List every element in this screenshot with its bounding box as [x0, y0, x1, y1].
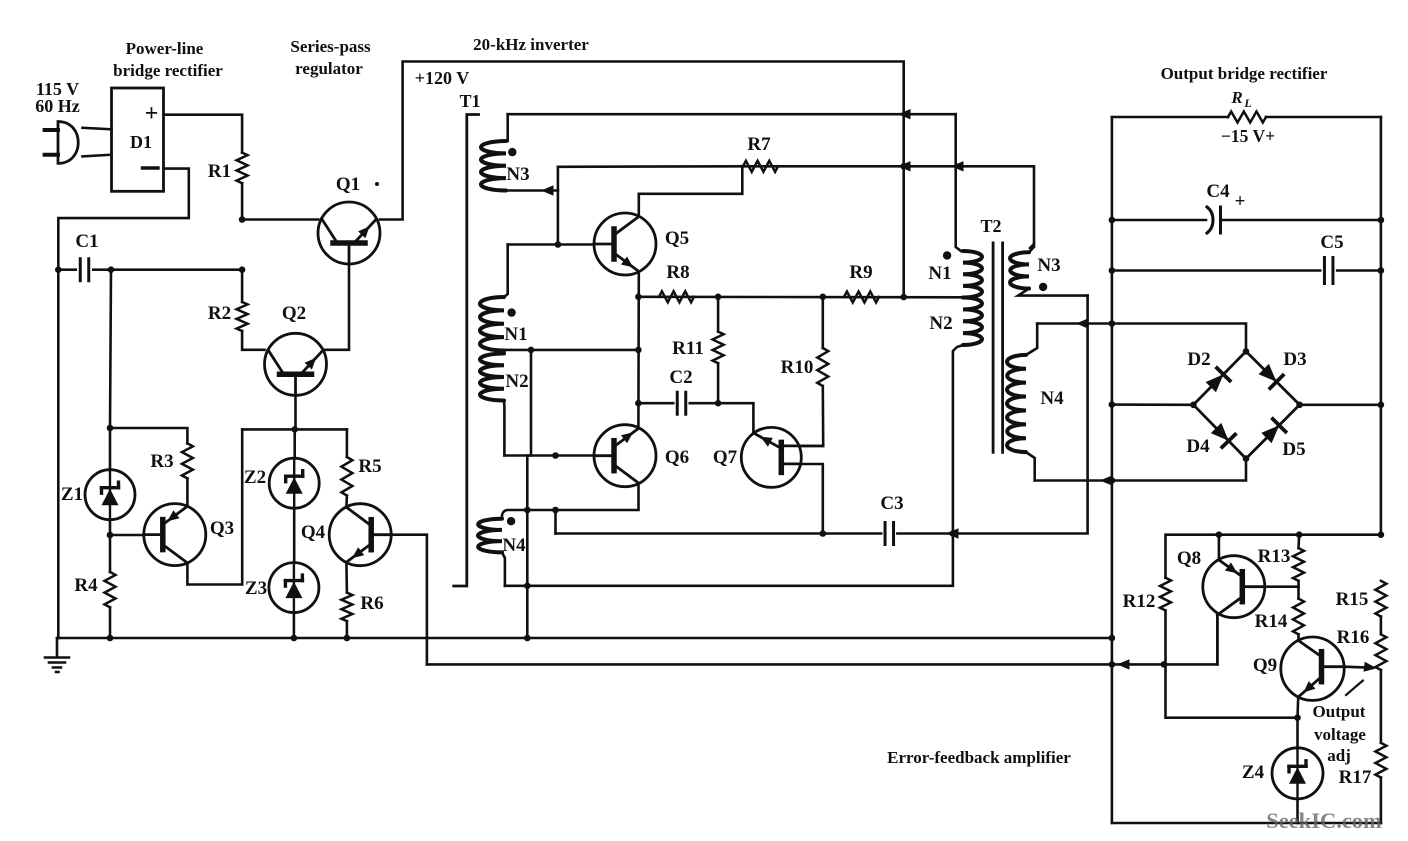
resistor R12 — [1160, 578, 1171, 611]
wire C1 right lead to node — [93, 268, 111, 271]
node Q2/Z2 — [291, 426, 298, 433]
svg-text:Z2: Z2 — [244, 467, 266, 488]
svg-text:C3: C3 — [880, 493, 903, 514]
svg-text:N4: N4 — [1040, 388, 1064, 409]
winding N1 of T1 — [480, 297, 504, 351]
AC plug body — [58, 122, 78, 164]
svg-text:voltage: voltage — [1314, 725, 1366, 744]
diode bridge frame — [1193, 351, 1299, 458]
wire N4 T1 top lead — [502, 510, 527, 519]
winding N1 of T2 — [963, 251, 982, 298]
node C4 right — [1378, 217, 1385, 224]
wire R5 top lead — [346, 429, 349, 457]
capacitor C2 — [677, 392, 686, 414]
wire Q7 base to R10 — [800, 445, 824, 448]
node bus/bridge bottom — [1109, 477, 1116, 484]
wire Q3 emitter to Z2 node — [187, 429, 242, 584]
svg-text:T2: T2 — [980, 216, 1001, 236]
svg-text:R13: R13 — [1258, 546, 1291, 567]
diode D3 — [1259, 364, 1283, 388]
wire Q2 emitter down — [294, 395, 297, 429]
wire N3 T2 top lead — [1029, 244, 1034, 252]
resistor R8 — [659, 291, 694, 302]
svg-text:Error-feedback amplifier: Error-feedback amplifier — [887, 748, 1071, 767]
svg-text:R10: R10 — [781, 357, 814, 378]
wire Z3 to ground bus — [293, 613, 296, 638]
svg-text:R9: R9 — [849, 262, 872, 283]
resistor R16 potentiometer — [1375, 634, 1386, 670]
wire R15 bottom to R16 — [1380, 617, 1383, 635]
svg-text:R3: R3 — [150, 451, 173, 472]
wire Q8 collector lead — [1218, 535, 1221, 560]
arrow on R7 line at bus — [898, 161, 911, 171]
capacitor C1 — [80, 259, 89, 281]
wire N3 bottom lead — [506, 189, 558, 192]
node N4 rail/ground — [524, 635, 531, 642]
wire Q3 base — [110, 534, 144, 537]
transistor Q7 — [741, 427, 801, 487]
winding N3 of T1 — [481, 141, 506, 191]
svg-text:R6: R6 — [360, 593, 383, 614]
wire N1 T1 top lead — [508, 243, 558, 246]
stray mark near Q1 — [375, 182, 379, 186]
wire N4 T2 top line to bridge — [1037, 324, 1246, 352]
transistor Q8 — [1203, 556, 1265, 618]
wire C5 row — [1112, 269, 1320, 272]
wire R7 line — [558, 166, 1034, 248]
svg-text:R5: R5 — [358, 456, 381, 477]
svg-text:D3: D3 — [1283, 349, 1306, 370]
wire bridge AC bottom line — [1035, 459, 1246, 481]
node C1 left — [55, 266, 62, 273]
wire Q6 bottom lead — [527, 483, 638, 510]
svg-text:D5: D5 — [1282, 439, 1305, 460]
svg-text:Q3: Q3 — [210, 518, 234, 539]
node C1 right — [108, 266, 115, 273]
wire T2 N1 top vertical — [956, 114, 961, 251]
svg-text:Q1: Q1 — [336, 174, 360, 195]
node R11/C2 — [715, 400, 722, 407]
wire Q9 collector to pot wiper — [1344, 665, 1367, 668]
wire R10 top lead — [821, 297, 824, 348]
winding N4 of T1 — [478, 519, 502, 553]
svg-text:Z1: Z1 — [61, 484, 83, 505]
transistor Q4 — [329, 504, 391, 566]
node R10 top — [820, 294, 827, 301]
resistor R10 — [817, 348, 828, 386]
node bridge top — [1243, 348, 1250, 355]
wire bridge DC left — [1112, 403, 1194, 406]
svg-text:Series-pass: Series-pass — [290, 37, 371, 56]
node R9 right/main bus — [900, 294, 907, 301]
wire error amp top line — [1164, 611, 1167, 665]
svg-text:Q9: Q9 — [1253, 655, 1277, 676]
zener Z3 — [269, 563, 319, 613]
wire R11 leads — [717, 297, 720, 332]
phasing dot N1 T2 — [943, 251, 951, 259]
svg-text:+: + — [145, 101, 159, 127]
wire R2 to Q2 base — [242, 331, 264, 350]
svg-text:+120 V: +120 V — [415, 68, 469, 88]
node C3 line/T2 drop — [950, 530, 957, 537]
wire R12 top to 536 line — [1166, 535, 1381, 578]
zener Z2 — [269, 458, 319, 508]
svg-text:T1: T1 — [459, 91, 480, 111]
plug to rectifier funnel bottom — [83, 155, 112, 157]
node C2 left — [635, 400, 642, 407]
svg-text:Output: Output — [1313, 702, 1366, 721]
capacitor C3 — [885, 523, 894, 545]
svg-text:R15: R15 — [1336, 589, 1369, 610]
svg-text:−15 V+: −15 V+ — [1221, 126, 1275, 146]
winding N4 of T2 — [1007, 355, 1026, 452]
wire N3/R7 vertical to Q5 base — [557, 167, 560, 245]
zener Z4 — [1272, 748, 1323, 799]
svg-text:+: + — [1235, 191, 1246, 212]
wire C5 row right — [1337, 269, 1381, 272]
resistor R2 — [237, 302, 248, 331]
node N4 rail/585 line — [524, 583, 531, 590]
svg-text:N1: N1 — [504, 324, 527, 345]
node R13 top — [1296, 531, 1303, 538]
wire C4 row — [1112, 219, 1206, 222]
svg-text:N1: N1 — [928, 263, 951, 284]
transformer T1 core — [454, 115, 479, 587]
wire N4 T2 top lead — [1026, 324, 1037, 355]
diode D5 — [1261, 419, 1285, 443]
wire node to Q1 base — [242, 218, 318, 221]
wire C3 line — [556, 532, 882, 535]
svg-text:C1: C1 — [75, 231, 98, 252]
output right bus — [1380, 117, 1383, 535]
wire C4 row right — [1221, 219, 1381, 222]
node bus/N4T2 line — [1109, 320, 1116, 327]
wire Z2 top lead — [293, 429, 296, 458]
svg-text:Q6: Q6 — [665, 447, 689, 468]
wire node to R3 — [110, 428, 187, 443]
wire C3 drop — [554, 510, 557, 534]
node R3 branch — [107, 425, 114, 432]
AC plug prongs — [45, 130, 58, 155]
phasing dot N1 T1 — [507, 308, 515, 316]
wire feedback branch to Q9 emitter — [1166, 664, 1298, 717]
wire Z1 rail down — [110, 270, 111, 470]
resistor R9 — [844, 292, 879, 303]
wire R3 to Q3 collector — [186, 478, 189, 506]
svg-text:R8: R8 — [666, 262, 689, 283]
wire D1 + output to R1 — [164, 115, 243, 153]
wire C1 left lead — [58, 268, 75, 271]
resistor R11 — [713, 332, 724, 364]
svg-text:N4: N4 — [502, 535, 526, 556]
wire R6 to ground bus — [346, 621, 349, 638]
wire R10 to Q7 base — [800, 386, 824, 446]
node R1/Q1 base — [239, 216, 246, 223]
wire N4 bottom lead — [502, 552, 505, 585]
svg-text:R11: R11 — [672, 338, 704, 359]
svg-text:bridge rectifier: bridge rectifier — [113, 61, 223, 80]
wire R5 to Q4 collector — [345, 496, 348, 508]
ground symbol — [45, 638, 69, 672]
svg-text:N2: N2 — [929, 313, 952, 334]
wire R4 to ground bus — [109, 607, 112, 638]
wire R13 bottom lead — [1297, 581, 1300, 599]
node R15 top — [1378, 531, 1385, 538]
slash annotation — [1346, 681, 1363, 695]
svg-text:Q5: Q5 — [665, 228, 689, 249]
node bridge left — [1190, 402, 1197, 409]
node R8 left — [635, 294, 642, 301]
phasing dot N4 T1 — [507, 517, 515, 525]
node bridge left bus — [1109, 401, 1116, 408]
wire Q1 collector to +120V rail — [380, 62, 904, 297]
resistor R13 — [1293, 548, 1304, 581]
svg-text:D1: D1 — [130, 132, 152, 152]
svg-text:R1: R1 — [208, 161, 231, 182]
wire R8/R9 line — [638, 295, 961, 298]
node bridge bottom — [1243, 455, 1250, 462]
node ground bus/output bus — [1109, 635, 1116, 642]
node C5 left — [1109, 267, 1116, 274]
svg-text:R: R — [1230, 88, 1242, 107]
svg-text:R4: R4 — [74, 575, 98, 596]
wire Z2 to Z3 — [293, 508, 296, 562]
svg-text:regulator: regulator — [295, 59, 363, 78]
svg-text:R17: R17 — [1339, 767, 1372, 788]
wire bridge DC right — [1300, 403, 1381, 406]
arrow on C3 line — [946, 528, 959, 538]
wire N3T1-top line to T2 — [508, 113, 956, 116]
wire Z1 to Q3 base node — [109, 520, 112, 572]
node Q8 collector — [1216, 531, 1223, 538]
transistor Q1 — [318, 202, 380, 264]
wire Q6 base line — [504, 454, 593, 457]
node C4 left — [1109, 217, 1116, 224]
wire N4 T2 bottom lead — [1026, 452, 1035, 480]
resistor R4 — [105, 572, 116, 607]
svg-text:Q8: Q8 — [1177, 548, 1201, 569]
arrow on N4T2 top line — [1076, 318, 1089, 328]
svg-text:N2: N2 — [505, 371, 528, 392]
resistor R6 — [341, 593, 352, 622]
transistor Q9 — [1281, 637, 1344, 700]
svg-text:Q7: Q7 — [713, 447, 738, 468]
node Q6 base line — [552, 452, 559, 459]
resistor R15 — [1375, 581, 1386, 617]
node N4 top — [524, 507, 531, 514]
svg-text:Q4: Q4 — [301, 522, 326, 543]
wire Q5 emitter down to Q6 — [637, 272, 640, 428]
pot wiper arrow into R16 — [1364, 662, 1378, 672]
resistor R7 — [743, 161, 778, 172]
node R6/ground — [344, 635, 351, 642]
transistor Q6 — [594, 425, 656, 487]
capacitor C4 polarized — [1207, 207, 1221, 233]
wire Q5 base — [558, 243, 594, 246]
bridge rectifier D1 box — [112, 88, 164, 191]
node R4/ground — [107, 635, 114, 642]
svg-text:SeekIC.com: SeekIC.com — [1266, 808, 1382, 833]
wire Q4 base to feedback line — [391, 535, 427, 665]
wire N1/N2 tap line — [502, 349, 638, 352]
node Z3/ground — [291, 635, 298, 642]
svg-text:C2: C2 — [669, 367, 692, 388]
wire Q1 emitter down to Q2 — [323, 264, 349, 350]
node R7/main bus — [900, 163, 907, 170]
wire R13 top lead — [1297, 535, 1300, 548]
wire R17 to bottom rail — [1380, 778, 1383, 824]
wire R2 top lead — [241, 270, 244, 302]
svg-text:R14: R14 — [1255, 611, 1288, 632]
svg-text:Output bridge rectifier: Output bridge rectifier — [1161, 64, 1328, 83]
node R1/R2 junction — [239, 266, 246, 273]
output top rail left — [1112, 116, 1228, 119]
wire feedback line — [427, 615, 1218, 665]
node Q7/C3 line — [820, 530, 827, 537]
wire Z2 branch line — [242, 428, 347, 431]
svg-text:D2: D2 — [1187, 349, 1210, 370]
capacitor C5 — [1324, 258, 1333, 284]
bottom rail — [1112, 822, 1381, 825]
wire Q5 collector to R7 — [639, 166, 743, 217]
output top rail right — [1266, 116, 1381, 119]
phasing dot N3 T1 — [508, 148, 516, 156]
wire C2 row right — [690, 403, 754, 433]
wire D1 - output — [58, 169, 189, 270]
node tap/N1N2 — [528, 347, 535, 354]
wire N1 T1 top vertical — [504, 245, 508, 298]
svg-text:60 Hz: 60 Hz — [35, 96, 80, 116]
svg-text:Z4: Z4 — [1242, 762, 1265, 783]
wire Z4 bottom to rail — [1296, 799, 1299, 823]
wire N4 rail to ground — [526, 510, 529, 638]
svg-text:C4: C4 — [1206, 181, 1230, 202]
svg-text:C5: C5 — [1320, 232, 1343, 253]
wire C1 node to R2 node — [111, 268, 242, 271]
wire C1 left rail down to ground — [57, 270, 60, 638]
diode D2 — [1206, 368, 1230, 392]
svg-text:Q2: Q2 — [282, 303, 306, 324]
wire N3 T2 bottom lead — [1018, 289, 1088, 296]
wire R11 bottom lead — [717, 363, 720, 403]
node R12 bottom/feedback — [1161, 661, 1168, 668]
minus terminal of D1 — [143, 166, 159, 169]
winding N2 of T1 — [480, 354, 504, 401]
wire Z4 top lead — [1296, 718, 1299, 749]
plug to rectifier funnel top — [83, 128, 112, 130]
wire Q8 base to R13/R14 — [1265, 585, 1299, 588]
node bridge right — [1296, 402, 1303, 409]
node R11 top — [715, 294, 722, 301]
wire Q7 collector down to C3 line — [801, 464, 823, 534]
svg-text:20-kHz inverter: 20-kHz inverter — [473, 35, 589, 54]
svg-text:N3: N3 — [506, 164, 529, 185]
wire Q9 emitter down — [1296, 697, 1299, 718]
wire tap vertical — [527, 350, 531, 510]
phasing dot N3 T2 — [1039, 283, 1047, 291]
wire R14 to Q9 base — [1297, 634, 1300, 640]
svg-text:Power-line: Power-line — [126, 39, 204, 58]
wire 585 line (N4 T1 to T2) — [505, 345, 963, 586]
node tap right — [635, 347, 642, 354]
diode D4 — [1211, 423, 1235, 447]
svg-text:R16: R16 — [1337, 627, 1370, 648]
output left bus — [1111, 117, 1114, 823]
resistor R14 — [1293, 599, 1304, 635]
resistor R1 — [237, 153, 248, 184]
transformer T2 core — [993, 243, 1003, 452]
zener Z1 — [85, 470, 135, 520]
transistor Q5 — [594, 213, 656, 275]
node Z1/Q3 base — [107, 532, 114, 539]
wire Q8 emitter down to feedback — [1216, 615, 1219, 665]
arrow on R7 line at T2 branch — [951, 161, 964, 171]
resistor R5 — [341, 457, 352, 496]
resistor R3 — [182, 443, 193, 478]
svg-text:R2: R2 — [208, 303, 231, 324]
arrow on bridge bottom line — [1100, 475, 1113, 485]
node feedback/output bus — [1109, 661, 1116, 668]
node bridge right bus — [1378, 402, 1385, 409]
wire N2 bottom lead — [503, 401, 506, 456]
resistor R17 — [1375, 743, 1386, 778]
svg-text:L: L — [1243, 96, 1251, 110]
arrow on 114 line — [898, 109, 911, 119]
node Q9 emitter tap — [1294, 714, 1301, 721]
node C3 drop — [552, 507, 559, 514]
svg-text:D4: D4 — [1186, 436, 1210, 457]
wire Q4 emitter to R6 — [345, 562, 348, 592]
wire R1 bottom to node — [241, 183, 244, 219]
resistor RL — [1228, 112, 1266, 123]
arrow feedback at bus — [1117, 659, 1130, 669]
svg-text:R7: R7 — [747, 134, 771, 155]
ground bus — [57, 637, 1112, 640]
arrow on N3 bottom wire — [541, 185, 554, 195]
wire C2 row left — [638, 402, 673, 405]
svg-text:adj: adj — [1327, 746, 1351, 765]
wire R16 to R17 — [1380, 670, 1383, 743]
wire T1 N3 top lead — [506, 114, 509, 141]
winding N2 of T2 — [963, 298, 982, 346]
svg-text:Z3: Z3 — [245, 578, 267, 599]
transistor Q3 — [144, 504, 206, 566]
node C5 right — [1378, 267, 1385, 274]
winding N3 of T2 — [1010, 252, 1029, 288]
transistor Q2 — [265, 333, 327, 395]
node Q5 base — [555, 241, 562, 248]
svg-text:R12: R12 — [1123, 591, 1156, 612]
svg-text:N3: N3 — [1037, 255, 1060, 276]
wire C3 line right — [897, 296, 1087, 534]
